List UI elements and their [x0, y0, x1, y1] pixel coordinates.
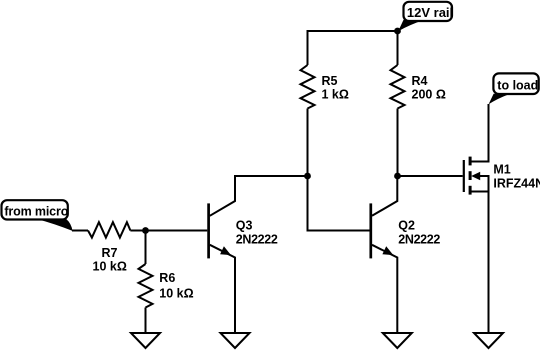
resistor R7	[88, 222, 130, 237]
mosfet M1 gate bar	[463, 160, 465, 192]
wire Q2 emitter	[372, 245, 397, 333]
mosfet M1 body arrow	[471, 172, 480, 180]
wire gate net Q2 collector to M1 gate	[398, 175, 463, 177]
wire M1 body	[478, 176, 489, 192]
wire base net from micro	[72, 230, 88, 232]
ground Q2	[383, 333, 412, 348]
callout tail from micro	[36, 219, 73, 231]
svg-text:R4: R4	[412, 74, 428, 88]
svg-text:12V rail: 12V rail	[407, 5, 453, 20]
transistor Q3 base bar	[207, 203, 210, 258]
wire R4 bottom lead	[397, 109, 399, 177]
svg-text:IRFZ44N: IRFZ44N	[493, 176, 540, 190]
wire R6 top lead	[145, 231, 147, 265]
mosfet M1 channel bars	[469, 157, 472, 195]
resistor R6	[139, 264, 153, 308]
svg-text:Q3: Q3	[236, 219, 253, 233]
ground Q3	[221, 333, 250, 348]
wire R4 top lead	[397, 31, 399, 65]
wire mid net vertical to Q2 base	[308, 176, 370, 231]
wire M1 source	[470, 192, 489, 334]
svg-text:to load: to load	[497, 78, 538, 92]
arrow Q3 emitter	[220, 246, 231, 255]
svg-text:from micro: from micro	[4, 204, 68, 218]
callout tail 12V rail	[398, 20, 424, 32]
wire R5 bottom lead	[307, 109, 309, 177]
svg-text:R5: R5	[322, 74, 338, 88]
wire M1 drain	[470, 104, 489, 162]
resistor R5	[301, 65, 315, 109]
ground M1	[474, 333, 503, 348]
wire R7 to Q3 base	[130, 230, 207, 232]
junction dot 12V rail node	[394, 28, 401, 35]
wire Q2 collector	[372, 175, 397, 216]
wire collector net Q3 horizontal	[235, 175, 308, 177]
wire R6 bottom lead	[145, 308, 147, 334]
callout box to load	[493, 73, 538, 94]
svg-text:M1: M1	[493, 163, 510, 177]
svg-text:2N2222: 2N2222	[236, 233, 278, 247]
svg-text:10 kΩ: 10 kΩ	[159, 286, 193, 300]
wire 12V rail top horizontal	[308, 30, 398, 32]
junction dot R7 R6 node	[142, 227, 149, 234]
svg-text:1 kΩ: 1 kΩ	[322, 88, 349, 102]
callout tail to load	[489, 94, 511, 105]
ground R6	[131, 333, 160, 348]
svg-text:R7: R7	[102, 246, 118, 260]
svg-text:10 kΩ: 10 kΩ	[93, 259, 127, 273]
wire Q3 collector vertical	[210, 175, 235, 216]
svg-text:Q2: Q2	[398, 219, 415, 233]
wire R5 top lead	[307, 30, 309, 65]
junction dot R4 bottom node	[394, 173, 401, 180]
transistor Q2 base bar	[369, 203, 372, 258]
callout box from micro	[2, 200, 68, 219]
callout box 12V rail	[404, 2, 453, 21]
svg-text:200 Ω: 200 Ω	[412, 88, 446, 102]
svg-text:2N2222: 2N2222	[398, 233, 440, 247]
resistor R4	[391, 65, 405, 109]
wire Q3 emitter	[210, 245, 235, 333]
junction dot R5 bottom node	[304, 173, 311, 180]
svg-text:R6: R6	[159, 271, 175, 285]
arrow Q2 emitter	[382, 246, 393, 255]
